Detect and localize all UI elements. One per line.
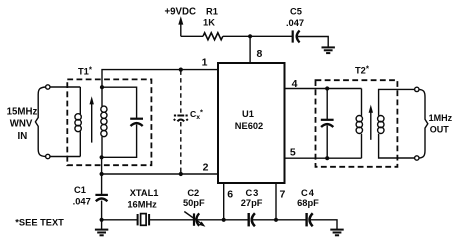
svg-text:IN: IN bbox=[18, 131, 28, 142]
svg-text:C2: C2 bbox=[187, 188, 199, 198]
svg-text:7: 7 bbox=[280, 189, 286, 201]
svg-text:1K: 1K bbox=[203, 18, 215, 28]
svg-text:+9VDC: +9VDC bbox=[165, 7, 197, 18]
svg-text:C5: C5 bbox=[290, 7, 302, 17]
svg-text:C4: C4 bbox=[301, 188, 315, 198]
svg-text:XTAL1: XTAL1 bbox=[130, 188, 159, 198]
svg-text:6: 6 bbox=[227, 189, 233, 201]
svg-text:WNV: WNV bbox=[10, 119, 33, 130]
svg-text:*SEE TEXT: *SEE TEXT bbox=[15, 217, 64, 227]
svg-text:27pF: 27pF bbox=[241, 198, 263, 208]
svg-text:NE602: NE602 bbox=[235, 121, 263, 131]
svg-text:OUT: OUT bbox=[430, 124, 450, 134]
svg-text:.047: .047 bbox=[73, 196, 91, 206]
svg-text:50pF: 50pF bbox=[183, 198, 205, 208]
svg-text:16MHz: 16MHz bbox=[127, 199, 157, 209]
svg-text:U1: U1 bbox=[242, 109, 254, 119]
svg-text:C3: C3 bbox=[245, 188, 259, 198]
svg-text:1MHz: 1MHz bbox=[429, 113, 453, 123]
svg-text:5: 5 bbox=[290, 147, 296, 159]
svg-text:8: 8 bbox=[257, 48, 263, 60]
svg-text:C1: C1 bbox=[74, 185, 86, 195]
svg-text:1: 1 bbox=[202, 57, 208, 69]
svg-text:2: 2 bbox=[203, 162, 209, 174]
svg-text:.047: .047 bbox=[286, 18, 304, 28]
svg-text:15MHz: 15MHz bbox=[7, 106, 38, 117]
svg-text:4: 4 bbox=[292, 78, 298, 90]
svg-text:R1: R1 bbox=[206, 7, 218, 17]
svg-text:68pF: 68pF bbox=[297, 198, 319, 208]
